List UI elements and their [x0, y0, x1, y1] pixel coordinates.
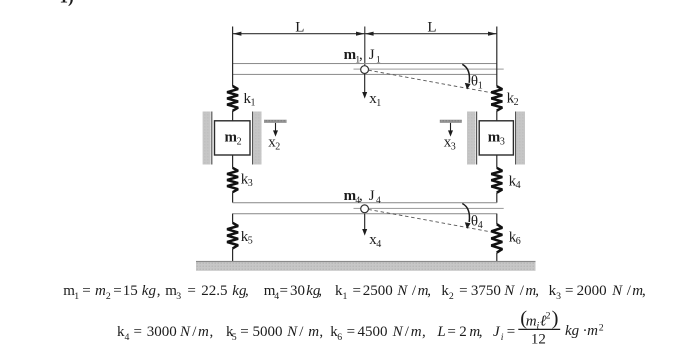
ground [196, 261, 536, 271]
k2 lower lead [496, 111, 498, 121]
svg-text:=: = [82, 283, 90, 299]
svg-text:=: = [113, 283, 121, 299]
wall left of m2 [203, 112, 212, 165]
svg-text:=: = [447, 324, 455, 340]
svg-text:,: , [422, 324, 426, 340]
svg-text:2: 2 [275, 141, 280, 152]
svg-text:2: 2 [449, 291, 454, 302]
svg-text:4: 4 [516, 180, 521, 191]
mass m3 box [479, 121, 513, 155]
svg-text:,: , [479, 324, 483, 340]
x2 arrow [273, 123, 278, 137]
svg-text:L: L [436, 324, 445, 340]
svg-text:15: 15 [123, 283, 138, 299]
svg-text:5: 5 [248, 236, 253, 247]
svg-text:2500: 2500 [363, 283, 393, 299]
theta4 arc arrow [462, 204, 470, 229]
svg-text:=: = [565, 283, 573, 299]
svg-text:,: , [245, 283, 249, 299]
svg-text:N: N [611, 283, 623, 299]
svg-text:4500: 4500 [358, 324, 388, 340]
svg-text:1: 1 [376, 98, 381, 109]
svg-text:/: / [299, 324, 304, 340]
top beam m1 J1 [233, 63, 497, 75]
svg-text:2: 2 [599, 323, 604, 334]
dashed rotated beam line top [368, 70, 491, 93]
k6 lower lead [496, 253, 498, 261]
svg-text:,: , [210, 324, 214, 340]
svg-text:/: / [412, 283, 417, 299]
bottom beam centerline extended [354, 208, 504, 209]
svg-text:3: 3 [556, 291, 561, 302]
spring k3 [227, 168, 238, 192]
svg-text:3: 3 [451, 141, 456, 152]
dashed rotated beam line bottom [368, 209, 491, 232]
Ji fraction (mi l^2)/12 kg m^2 [518, 307, 604, 347]
svg-text:5000: 5000 [253, 324, 283, 340]
svg-text:N: N [503, 283, 515, 299]
svg-text:3750: 3750 [471, 283, 501, 299]
svg-text:5: 5 [232, 332, 237, 343]
svg-text:1: 1 [478, 80, 483, 91]
x1 arrow [362, 74, 367, 99]
theta1 arc arrow [462, 64, 470, 89]
svg-text:30: 30 [290, 283, 305, 299]
svg-text:N: N [286, 324, 298, 340]
k6 upper lead [496, 214, 498, 225]
svg-text:m: m [587, 323, 598, 339]
svg-text:=: = [507, 324, 515, 340]
svg-text:=: = [187, 283, 195, 299]
svg-text:i: i [501, 332, 504, 343]
svg-text:N: N [392, 324, 404, 340]
x2 datum bar [264, 120, 287, 123]
parameter line 1 [63, 283, 645, 302]
svg-text:kg: kg [142, 283, 157, 299]
svg-text:m: m [308, 324, 319, 340]
svg-text:4: 4 [376, 196, 381, 206]
svg-text:/: / [192, 324, 197, 340]
x4 arrow [362, 214, 367, 236]
k5 upper lead [232, 214, 234, 223]
svg-text:m: m [95, 283, 106, 299]
k4 upper lead [496, 155, 498, 168]
svg-text:2: 2 [106, 291, 111, 302]
svg-text:4: 4 [478, 220, 483, 231]
svg-text:1: 1 [251, 98, 256, 109]
wall left of m3 [467, 112, 477, 165]
x3 arrow [448, 123, 453, 137]
right vertical line (extension + beam cap + spring anchor) [496, 27, 498, 87]
svg-text:L: L [295, 19, 304, 35]
svg-text:6: 6 [337, 332, 342, 343]
k5 lower lead [232, 248, 234, 261]
svg-text:m: m [225, 130, 238, 146]
svg-text:=: = [353, 283, 361, 299]
svg-text:N: N [179, 324, 191, 340]
spring k5 [227, 223, 238, 249]
svg-text:2000: 2000 [577, 283, 607, 299]
spring k6 [491, 224, 502, 252]
svg-text:m: m [526, 313, 537, 329]
svg-text:2: 2 [514, 97, 519, 108]
svg-text:2: 2 [459, 324, 467, 340]
wall right of m2 [253, 112, 262, 165]
k3 upper lead [232, 155, 234, 168]
k3 lower lead [232, 192, 234, 202]
svg-text:/: / [405, 324, 410, 340]
svg-text:=: = [459, 283, 467, 299]
svg-text:3: 3 [176, 291, 181, 302]
svg-text:1: 1 [376, 55, 381, 65]
svg-text:L: L [427, 19, 436, 35]
spring k1 [227, 86, 238, 111]
top beam centerline extended [354, 69, 504, 70]
svg-text:=: = [134, 324, 142, 340]
extension line center [364, 27, 366, 66]
svg-text:J: J [369, 188, 375, 204]
svg-text:4: 4 [125, 332, 130, 343]
svg-text:3: 3 [248, 178, 253, 189]
k4 lower lead [496, 193, 498, 203]
svg-text:,: , [535, 283, 539, 299]
svg-text:m: m [411, 324, 422, 340]
svg-text:/: / [627, 283, 632, 299]
wall right of m3 [516, 112, 525, 165]
svg-text:N: N [396, 283, 408, 299]
mass m2 box [215, 121, 251, 155]
svg-text:): ) [552, 307, 559, 329]
svg-text:J: J [493, 324, 501, 340]
svg-text:J: J [369, 47, 375, 63]
svg-text:,: , [319, 324, 323, 340]
svg-text:/: / [520, 283, 525, 299]
svg-text:,: , [642, 283, 646, 299]
dimension line right segment L [365, 32, 497, 36]
x3 datum bar [440, 120, 462, 123]
svg-text:2: 2 [237, 137, 242, 148]
svg-text:=: = [240, 324, 248, 340]
svg-text:,: , [157, 283, 161, 299]
dimension line left segment L [233, 32, 365, 36]
spring k4 [491, 168, 502, 193]
svg-text:4: 4 [376, 239, 381, 250]
svg-text:=: = [347, 324, 355, 340]
svg-text:2: 2 [546, 311, 551, 322]
spring k2 [491, 86, 502, 110]
svg-text:1): 1) [60, 0, 74, 7]
svg-text:12: 12 [531, 332, 546, 348]
svg-text:,: , [427, 283, 431, 299]
svg-text:22.5: 22.5 [201, 283, 227, 299]
svg-text:,: , [359, 47, 363, 63]
bottom beam m4 J4 [233, 202, 497, 214]
left vertical line (extension + beam cap + spring anchor) [232, 27, 234, 87]
svg-text:1: 1 [74, 291, 79, 302]
svg-text:,: , [359, 188, 363, 204]
k1 lower lead [232, 111, 234, 121]
svg-text:m: m [198, 324, 209, 340]
svg-text:3000: 3000 [147, 324, 177, 340]
svg-text:6: 6 [516, 236, 521, 247]
svg-text:,: , [318, 283, 322, 299]
svg-text:1: 1 [343, 291, 348, 302]
svg-text:kg: kg [565, 323, 580, 339]
svg-text:m: m [488, 130, 501, 146]
svg-text:=: = [280, 283, 288, 299]
pivot circle top beam [361, 66, 369, 74]
svg-text:3: 3 [500, 137, 505, 148]
pivot circle bottom beam [361, 205, 369, 213]
parameter line 2 [117, 324, 515, 343]
